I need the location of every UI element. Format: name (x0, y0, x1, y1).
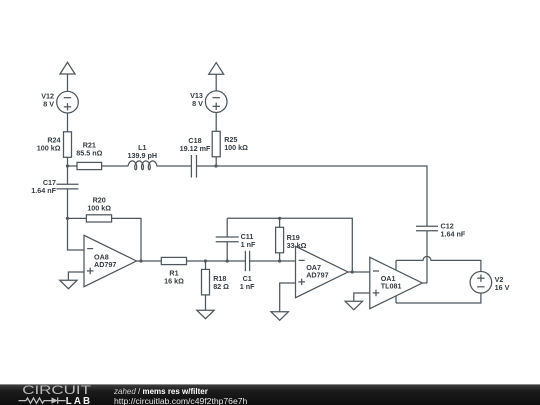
wire rail to C12 corner (216, 166, 427, 226)
wire OA7 noninverting input to ground (280, 283, 296, 312)
voltage source V2 (470, 272, 492, 294)
resistor R21 (77, 162, 102, 169)
footer URL (114, 397, 247, 405)
wire node to R21 (68, 165, 78, 167)
ground at OA8 (60, 280, 77, 289)
wire V12 to R24 (67, 113, 69, 132)
wire OA1 V- pin (395, 296, 397, 303)
wire node to OA8 inverting input (68, 218, 85, 250)
svg-text:1 nF: 1 nF (240, 282, 255, 291)
svg-text:8 V: 8 V (192, 99, 203, 108)
svg-text:1.64 nF: 1.64 nF (31, 186, 56, 195)
capacitor C18 (190, 155, 192, 178)
capacitor C12 (416, 225, 438, 227)
ground at R18 (197, 310, 214, 319)
svg-text:100 kΩ: 100 kΩ (224, 143, 248, 152)
resistor R24 (64, 132, 72, 158)
wire R25 to node (215, 157, 217, 166)
svg-text:16 V: 16 V (495, 283, 510, 292)
wire R20 to OA8 output (112, 218, 141, 261)
footer title: author and schematic name (114, 388, 208, 396)
wire L1 to C18 (157, 165, 191, 167)
wire node to OA7 inverting input (280, 260, 296, 262)
wire OA1 output stub to C12 wire (422, 282, 427, 284)
node R19 bottom junction (278, 259, 281, 262)
node OA8 output junction (139, 259, 142, 262)
wire C1 to R19 node (250, 260, 280, 262)
wire OA8 output to R1 (141, 260, 161, 262)
wire R1 to node (187, 260, 206, 262)
CircuitLab logo diode (52, 397, 58, 403)
wire OA8 noninverting input to ground (68, 272, 84, 280)
wire V13 to R25 (215, 112, 217, 131)
voltage source V13 (205, 91, 227, 113)
node OA7 output junction (351, 270, 354, 273)
svg-text:100 kΩ: 100 kΩ (37, 144, 61, 153)
wire V+ rail with hop over C12 wire (396, 256, 481, 271)
voltage source V12 (57, 91, 79, 113)
wire R24 to node (67, 157, 69, 166)
inductor L1 (128, 161, 157, 170)
node C17/R20/OA8 junction (66, 217, 69, 220)
op-amp OA7 (296, 246, 349, 297)
capacitor C17 (57, 183, 79, 185)
capacitor C11 (216, 218, 239, 261)
wire C11 to C1 (227, 260, 245, 262)
wire node to C17 (67, 166, 69, 184)
wire node to C11 node (206, 260, 228, 262)
CircuitLab logo resistor zigzag (19, 398, 52, 403)
node C11 bottom junction (226, 259, 229, 262)
wire C12 to OA1 output (426, 231, 428, 283)
wire OA8 output stub (137, 260, 142, 262)
resistor R20 (86, 215, 111, 222)
ground at OA1 (345, 301, 362, 310)
resistor R25 (212, 131, 220, 157)
op-amp OA8 (84, 235, 137, 286)
svg-text:1.64 nF: 1.64 nF (441, 229, 466, 238)
power VCC symbol for V13 (209, 63, 224, 75)
power VCC symbol for V12 (60, 62, 75, 74)
svg-text:AD797: AD797 (94, 260, 116, 269)
node R24/R21/C17 junction (66, 164, 69, 167)
svg-text:AD797: AD797 (306, 271, 328, 280)
svg-text:16 kΩ: 16 kΩ (164, 276, 184, 285)
wire OA1 V+ pin (395, 260, 397, 269)
svg-text:LAB: LAB (66, 396, 92, 405)
node C18/R25/rail junction (214, 164, 217, 167)
svg-text:8 V: 8 V (43, 100, 54, 109)
svg-text:82 Ω: 82 Ω (213, 282, 229, 291)
wire R21 to L1 (102, 165, 128, 167)
svg-text:85.5 nΩ: 85.5 nΩ (76, 148, 102, 157)
capacitor C1 (244, 251, 246, 271)
resistor R19 (276, 218, 284, 261)
resistor R1 (161, 257, 186, 264)
wire C18 to node (197, 165, 217, 167)
wire OA7 output to OA1 inverting input (348, 271, 370, 273)
svg-text:33 kΩ: 33 kΩ (287, 241, 307, 250)
wire V2 to V- rail (396, 293, 481, 303)
ground at OA7 (271, 312, 288, 321)
feedback top wire C11/R19 to OA7 output (227, 218, 352, 272)
op-amp OA1 (370, 257, 423, 308)
svg-text:TL081: TL081 (381, 282, 402, 291)
resistor R18 (202, 261, 210, 310)
node R19 top junction (278, 217, 281, 220)
wire C17 to node (67, 189, 69, 219)
node R18 top junction (204, 259, 207, 262)
svg-text:1 nF: 1 nF (241, 240, 256, 249)
svg-text:139.9 pH: 139.9 pH (128, 151, 158, 160)
svg-text:100 kΩ: 100 kΩ (87, 203, 111, 212)
wire node to R20 (68, 217, 87, 219)
wire OA1 noninverting input to ground (354, 293, 370, 301)
svg-text:19.12 mF: 19.12 mF (180, 144, 211, 153)
